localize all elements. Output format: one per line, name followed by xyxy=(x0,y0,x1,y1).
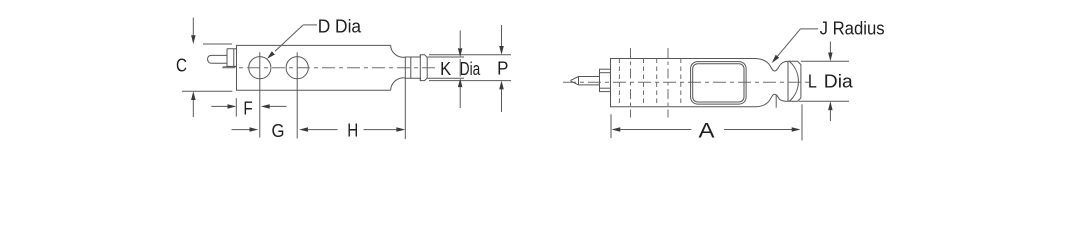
svg-text:L: L xyxy=(808,70,817,91)
svg-text:K: K xyxy=(440,58,452,79)
svg-text:A: A xyxy=(699,118,716,142)
svg-text:Dia: Dia xyxy=(824,70,854,91)
svg-text:Dia: Dia xyxy=(460,58,481,79)
svg-text:G: G xyxy=(272,120,285,141)
svg-text:P: P xyxy=(497,58,508,79)
svg-text:C: C xyxy=(176,54,187,75)
svg-text:D Dia: D Dia xyxy=(318,15,362,36)
svg-text:J Radius: J Radius xyxy=(820,18,885,39)
svg-text:F: F xyxy=(243,98,252,119)
svg-text:H: H xyxy=(347,120,358,141)
